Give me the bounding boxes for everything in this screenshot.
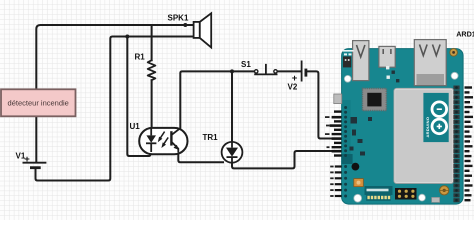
LED cathode bar <box>146 142 156 144</box>
wire TR1 collector branch from top rail <box>231 71 233 142</box>
darker strip under yellow header <box>365 186 393 195</box>
board PCB <box>342 49 464 205</box>
left pin tiny labels <box>325 116 334 197</box>
white silk text top-left <box>343 50 354 52</box>
photon arrow 2 <box>163 137 168 144</box>
yellow header row <box>366 194 391 201</box>
LED triangle <box>146 135 156 142</box>
reset button <box>343 56 351 67</box>
svg-text:SPK1: SPK1 <box>168 14 189 23</box>
node: speaker top terminal junction <box>183 23 187 27</box>
wire junction branch to U1 LED cathode <box>127 37 150 157</box>
collector line <box>171 128 180 135</box>
darker teal patch bottom-left <box>342 154 353 164</box>
svg-text:V2: V2 <box>288 82 298 91</box>
wire detecteur-top to speaker <box>36 25 193 90</box>
detecteur incendie box <box>1 89 76 116</box>
transistor TR1 <box>222 142 243 163</box>
antenna connector <box>440 186 449 195</box>
wire V2 to board pin (IOREF) <box>307 71 332 138</box>
orange resonator <box>354 179 364 187</box>
phototransistor bar <box>170 131 172 145</box>
mounting hole top-right <box>451 72 458 79</box>
svg-text:détecteur incendie: détecteur incendie <box>8 99 69 108</box>
wire TR1 emitter to board pin <box>232 151 332 168</box>
photon arrow 1 <box>160 132 165 139</box>
right pin tiny labels <box>465 86 474 201</box>
svg-text:+: + <box>24 154 30 165</box>
resistor R1 <box>148 60 156 80</box>
wire R1 bottom lead to U1 anode <box>151 80 153 128</box>
battery V1 <box>23 163 47 168</box>
white silk text above yellow header <box>367 189 389 192</box>
wire battery V1 bottom loop to speaker lower terminal <box>36 37 194 181</box>
RJ45 ethernet connector <box>414 40 446 86</box>
svg-text:ARDUINO: ARDUINO <box>425 117 430 138</box>
wire R1 top lead from top wire <box>151 25 153 60</box>
gray tab left edge <box>334 94 342 104</box>
optocoupler U1 <box>139 128 187 154</box>
svg-text:ARD1: ARD1 <box>456 29 474 38</box>
svg-text:TR1: TR1 <box>203 133 219 142</box>
wire U1 collector riser and top rail to S1 <box>180 71 254 127</box>
mounting hole top-left <box>344 75 351 82</box>
teal label with arduino logo <box>423 93 448 142</box>
node: junction on lower speaker wire <box>125 35 129 39</box>
svg-text:R1: R1 <box>135 52 146 61</box>
emitter line with arrow <box>171 142 178 153</box>
node: junction top rail / TR1 branch <box>230 69 234 73</box>
darker teal patch left column <box>342 100 351 162</box>
black electrolytic capacitor <box>352 163 360 171</box>
gray component bottom right <box>432 197 440 202</box>
LED anode lead inside <box>150 128 152 135</box>
small passives <box>351 117 358 124</box>
gold pad top-right <box>450 49 458 57</box>
left pin pads column on board <box>344 106 347 198</box>
wire S1 to V2 <box>277 70 300 72</box>
speaker SPK1 <box>194 13 212 47</box>
USB-A host connector <box>353 41 369 81</box>
switch S1 <box>254 64 277 75</box>
left pin header stubs <box>330 110 342 197</box>
svg-text:U1: U1 <box>130 122 141 131</box>
right pin pads column on board <box>453 86 459 203</box>
metal shield <box>394 88 454 183</box>
micro USB connector <box>379 46 395 67</box>
mounting hole bottom-left <box>354 194 362 202</box>
wire detecteur-bottom to battery V1 <box>35 117 37 163</box>
battery V2 <box>302 61 306 82</box>
mounting hole bottom-right <box>419 194 426 201</box>
svg-text:S1: S1 <box>241 60 251 69</box>
QFP microcontroller <box>362 88 386 110</box>
ICSP 2x3 header <box>395 188 417 200</box>
wire U1 emitter to TR1 base <box>178 153 223 163</box>
